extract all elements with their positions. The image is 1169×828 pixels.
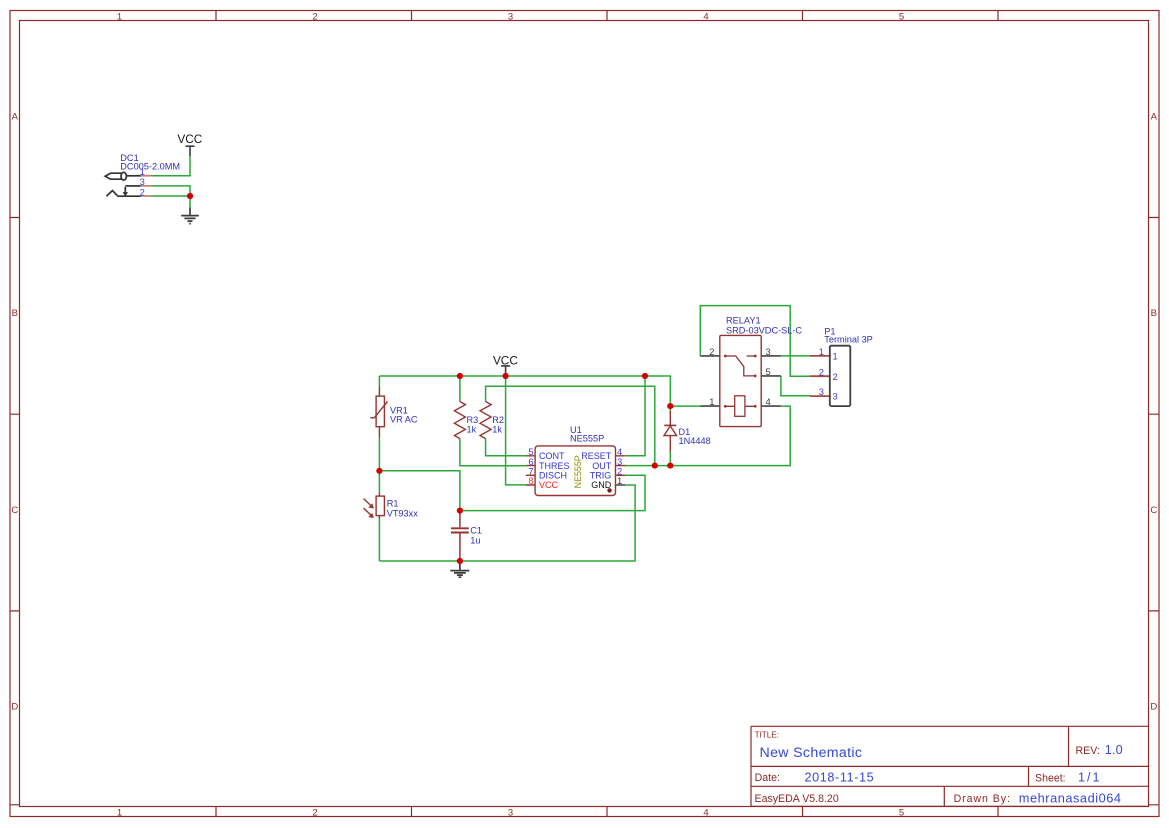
- svg-text:A: A: [1151, 111, 1158, 122]
- svg-text:1k: 1k: [492, 425, 502, 435]
- svg-text:C: C: [11, 505, 18, 516]
- svg-text:1.0: 1.0: [1105, 743, 1123, 757]
- svg-text:1: 1: [117, 808, 122, 819]
- svg-text:DISCH: DISCH: [539, 471, 567, 481]
- svg-text:New Schematic: New Schematic: [760, 745, 863, 761]
- svg-text:NE555P: NE555P: [570, 434, 604, 444]
- svg-text:A: A: [12, 111, 19, 122]
- svg-text:2: 2: [140, 186, 145, 197]
- svg-text:2: 2: [312, 12, 317, 23]
- svg-text:RELAY1: RELAY1: [726, 316, 761, 326]
- svg-text:B: B: [12, 308, 18, 319]
- svg-text:VT93xx: VT93xx: [387, 508, 419, 518]
- svg-text:C1: C1: [470, 526, 482, 536]
- svg-text:8: 8: [528, 475, 533, 486]
- svg-text:D: D: [11, 702, 18, 713]
- svg-text:2: 2: [312, 808, 317, 819]
- svg-text:3: 3: [508, 808, 513, 819]
- svg-text:OUT: OUT: [592, 461, 612, 471]
- svg-text:R1: R1: [387, 498, 399, 508]
- svg-text:1: 1: [819, 346, 824, 357]
- svg-text:1u: 1u: [470, 536, 480, 546]
- svg-text:1/1: 1/1: [1078, 771, 1100, 785]
- svg-text:mehranasadi064: mehranasadi064: [1019, 790, 1121, 805]
- svg-text:2018-11-15: 2018-11-15: [805, 771, 874, 785]
- svg-text:1N4448: 1N4448: [679, 436, 711, 446]
- svg-text:TRIG: TRIG: [590, 471, 612, 481]
- svg-text:Date:: Date:: [755, 772, 780, 784]
- svg-text:Sheet:: Sheet:: [1035, 772, 1066, 784]
- svg-text:Terminal 3P: Terminal 3P: [824, 335, 873, 345]
- svg-text:2: 2: [819, 366, 824, 377]
- svg-text:VR AC: VR AC: [390, 415, 418, 425]
- svg-text:RESET: RESET: [581, 451, 612, 461]
- svg-text:5: 5: [766, 366, 771, 377]
- svg-text:EasyEDA V5.8.20: EasyEDA V5.8.20: [755, 793, 839, 805]
- svg-text:THRES: THRES: [539, 461, 570, 471]
- svg-text:1: 1: [833, 351, 838, 362]
- svg-text:DC005-2.0MM: DC005-2.0MM: [120, 162, 180, 172]
- svg-text:REV:: REV:: [1076, 745, 1100, 757]
- svg-text:VCC: VCC: [493, 353, 518, 367]
- svg-text:1: 1: [709, 396, 714, 407]
- svg-text:4: 4: [703, 808, 708, 819]
- svg-text:3: 3: [833, 391, 838, 402]
- svg-text:VCC: VCC: [177, 132, 202, 146]
- svg-text:2: 2: [709, 346, 714, 357]
- svg-text:R2: R2: [492, 415, 504, 425]
- svg-text:GND: GND: [591, 480, 612, 490]
- svg-text:Drawn By:: Drawn By:: [954, 793, 1010, 805]
- svg-text:1: 1: [617, 475, 622, 486]
- svg-text:R3: R3: [467, 415, 479, 425]
- svg-text:3: 3: [819, 386, 824, 397]
- svg-text:CONT: CONT: [539, 451, 565, 461]
- svg-text:1: 1: [117, 12, 122, 23]
- svg-text:5: 5: [899, 12, 904, 23]
- svg-text:3: 3: [766, 346, 771, 357]
- svg-text:TITLE:: TITLE:: [755, 731, 779, 740]
- svg-text:1k: 1k: [467, 425, 477, 435]
- svg-text:SRD-03VDC-SL-C: SRD-03VDC-SL-C: [726, 325, 802, 335]
- svg-text:3: 3: [508, 12, 513, 23]
- svg-text:B: B: [1151, 308, 1157, 319]
- svg-text:C: C: [1150, 505, 1157, 516]
- svg-text:VCC: VCC: [539, 480, 559, 490]
- svg-text:5: 5: [899, 808, 904, 819]
- svg-text:NE555P: NE555P: [573, 455, 583, 488]
- svg-text:2: 2: [833, 371, 838, 382]
- svg-text:4: 4: [766, 396, 771, 407]
- svg-text:4: 4: [703, 12, 708, 23]
- svg-text:D: D: [1150, 702, 1157, 713]
